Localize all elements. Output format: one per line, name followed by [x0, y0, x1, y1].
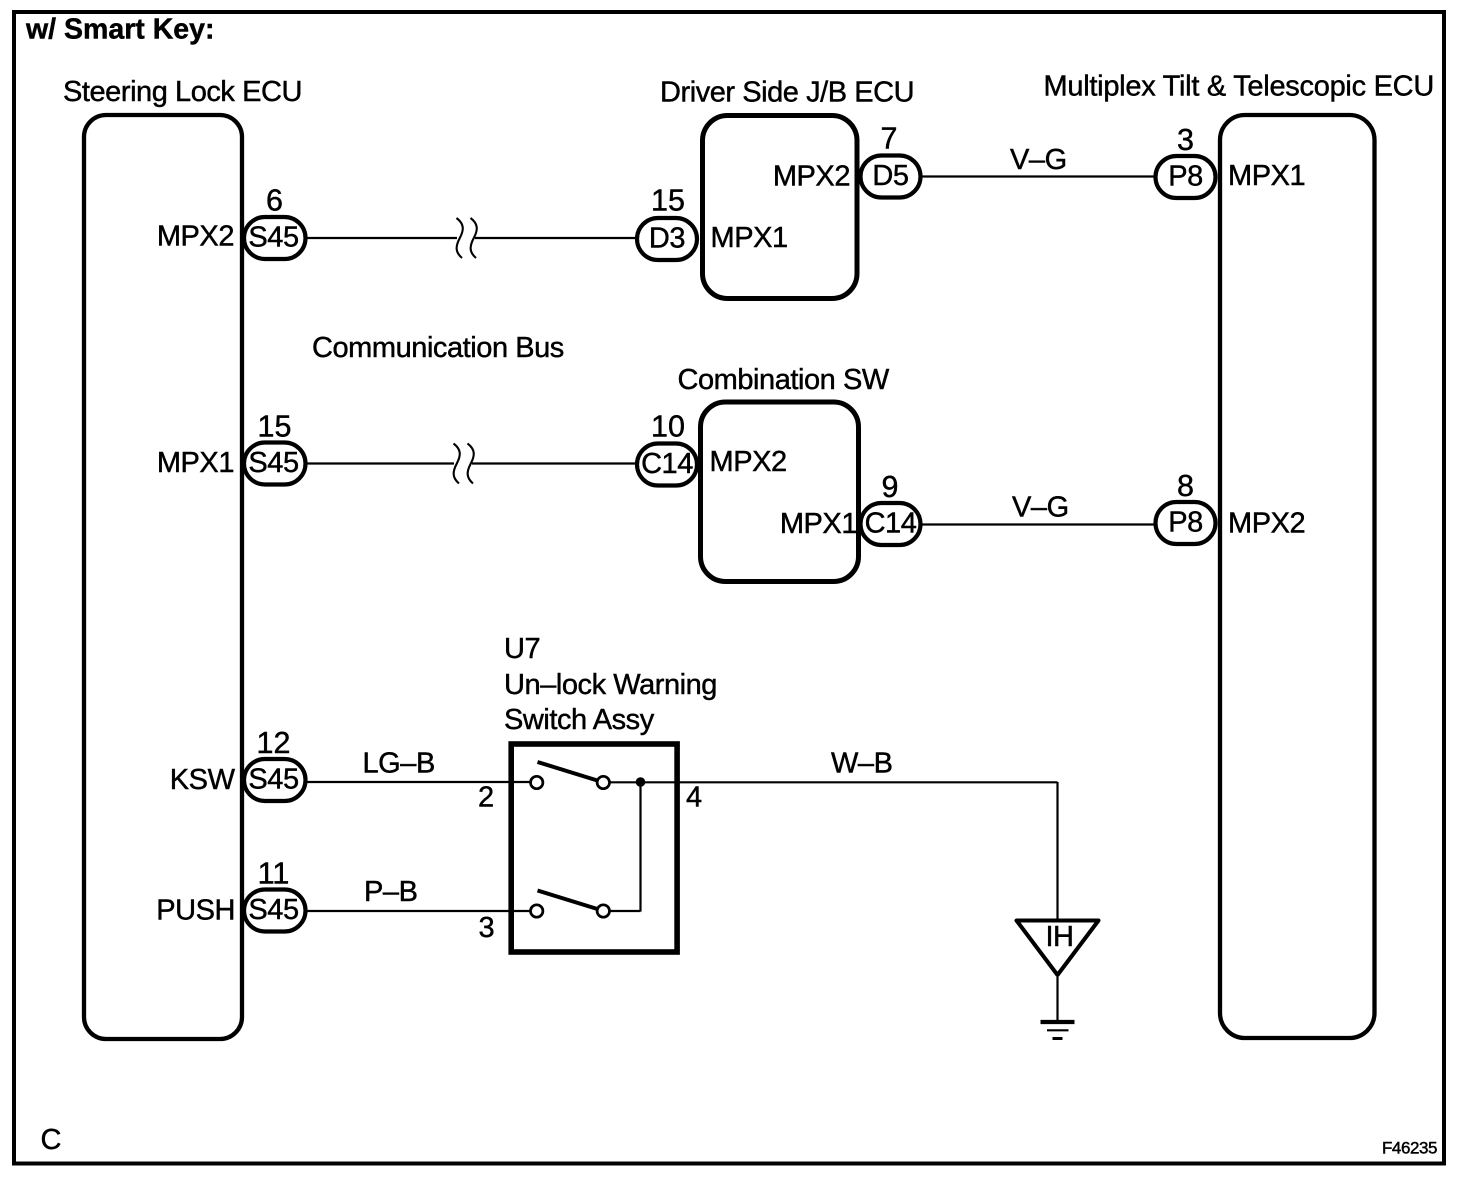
- svg-text:MPX1: MPX1: [157, 447, 234, 479]
- switch 1 contact terminal (pin 2): [531, 776, 543, 788]
- svg-text:D5: D5: [872, 160, 908, 192]
- svg-text:MPX1: MPX1: [711, 222, 788, 254]
- wire W-B vertical drop to ground: [1056, 782, 1058, 919]
- connector P8 pin 8: [1156, 502, 1216, 544]
- wire switch 2 output to junction: [610, 910, 641, 912]
- svg-text:S45: S45: [248, 894, 298, 926]
- svg-text:MPX1: MPX1: [780, 508, 857, 540]
- svg-text:MPX1: MPX1: [1228, 160, 1305, 192]
- svg-text:S45: S45: [248, 764, 298, 796]
- svg-text:6: 6: [266, 184, 283, 218]
- ECU box (Driver Side J/B ECU): [703, 116, 858, 299]
- svg-text:15: 15: [258, 410, 292, 444]
- wire D5 to P8-3: [921, 175, 1155, 177]
- svg-text:w/ Smart Key:: w/ Smart Key:: [25, 14, 214, 46]
- svg-text:7: 7: [881, 122, 898, 156]
- connector S45 pin 6: [244, 217, 306, 259]
- svg-text:C14: C14: [865, 508, 917, 540]
- wire S45-15 to C14-10 (left segment): [306, 462, 454, 464]
- svg-text:S45: S45: [248, 447, 298, 479]
- break mark pair on bus wire 1: [457, 218, 477, 258]
- svg-text:MPX2: MPX2: [773, 161, 850, 193]
- svg-text:Communication Bus: Communication Bus: [312, 332, 564, 364]
- svg-text:V–G: V–G: [1012, 492, 1069, 524]
- switch 1 blade: [538, 762, 600, 781]
- svg-text:3: 3: [479, 912, 495, 944]
- connector C14 pin 9: [861, 503, 921, 545]
- wire S45-6 to D3 (right segment): [475, 237, 637, 239]
- svg-text:8: 8: [1177, 469, 1194, 503]
- connector D3 pin 15: [637, 218, 697, 260]
- svg-text:Combination SW: Combination SW: [678, 364, 890, 396]
- svg-text:KSW: KSW: [170, 764, 236, 796]
- svg-text:15: 15: [651, 184, 685, 218]
- wire PUSH S45-11 to switch 2: [306, 910, 531, 912]
- wire junction vertical: [639, 782, 641, 912]
- connector S45 pin 11: [244, 890, 306, 932]
- svg-text:V–G: V–G: [1010, 144, 1067, 176]
- wire KSW S45-12 to switch 1: [306, 781, 531, 783]
- svg-text:MPX2: MPX2: [710, 446, 787, 478]
- svg-text:Un–lock Warning: Un–lock Warning: [504, 669, 717, 701]
- svg-text:Steering Lock ECU: Steering Lock ECU: [63, 76, 302, 108]
- switch 1 output terminal: [597, 776, 609, 788]
- switch box U7: [511, 744, 677, 952]
- svg-text:Multiplex Tilt & Telescopic EC: Multiplex Tilt & Telescopic ECU: [1044, 71, 1434, 103]
- label U7 / Un-lock Warning Switch Assy: [504, 633, 717, 736]
- svg-text:2: 2: [478, 782, 494, 814]
- svg-text:11: 11: [258, 857, 290, 891]
- svg-text:D3: D3: [649, 223, 685, 255]
- svg-text:Driver Side J/B ECU: Driver Side J/B ECU: [660, 77, 914, 109]
- ECU box (Multiplex Tilt & Telescopic ECU): [1220, 115, 1375, 1038]
- wire S45-15 to C14-10 (right segment): [472, 462, 637, 464]
- svg-text:P–B: P–B: [364, 876, 417, 908]
- svg-text:C: C: [41, 1124, 62, 1156]
- svg-text:MPX2: MPX2: [157, 221, 234, 253]
- svg-text:3: 3: [1177, 123, 1194, 157]
- junction dot node: [636, 777, 646, 787]
- svg-text:F46235: F46235: [1382, 1139, 1437, 1158]
- switch 2 output terminal: [597, 905, 609, 917]
- svg-text:12: 12: [257, 726, 291, 760]
- svg-text:MPX2: MPX2: [1228, 508, 1305, 540]
- ground symbol: [1041, 1022, 1075, 1039]
- ECU box (Steering Lock ECU): [84, 115, 242, 1039]
- wire S45-6 to D3 (left segment): [306, 237, 457, 239]
- ground triangle IH: [1017, 921, 1099, 976]
- svg-text:9: 9: [882, 470, 899, 504]
- svg-text:W–B: W–B: [831, 748, 893, 780]
- svg-text:S45: S45: [248, 222, 298, 254]
- switch 2 contact terminal (pin 3): [531, 905, 543, 917]
- svg-text:U7: U7: [504, 633, 540, 665]
- connector C14 pin 10: [637, 444, 697, 486]
- connector S45 pin 12: [244, 759, 306, 801]
- wire triangle apex to ground: [1056, 977, 1058, 1021]
- connector D5 pin 7: [861, 156, 921, 198]
- break mark pair on bus wire 2: [454, 444, 474, 484]
- switch box (Combination SW): [701, 402, 859, 582]
- svg-text:Switch Assy: Switch Assy: [504, 704, 655, 736]
- svg-text:C14: C14: [641, 448, 693, 480]
- svg-text:P8: P8: [1168, 161, 1203, 193]
- connector S45 pin 15: [244, 443, 306, 485]
- connector P8 pin 3: [1156, 156, 1216, 198]
- svg-text:P8: P8: [1168, 507, 1203, 539]
- svg-text:10: 10: [651, 410, 685, 444]
- wire C14-9 to P8-8: [921, 523, 1155, 525]
- svg-text:LG–B: LG–B: [363, 748, 435, 780]
- switch 2 blade: [538, 891, 600, 910]
- svg-text:IH: IH: [1045, 921, 1073, 953]
- wire switch 1 output to W-B run: [610, 781, 1058, 783]
- svg-text:4: 4: [686, 782, 702, 814]
- svg-text:PUSH: PUSH: [156, 895, 235, 927]
